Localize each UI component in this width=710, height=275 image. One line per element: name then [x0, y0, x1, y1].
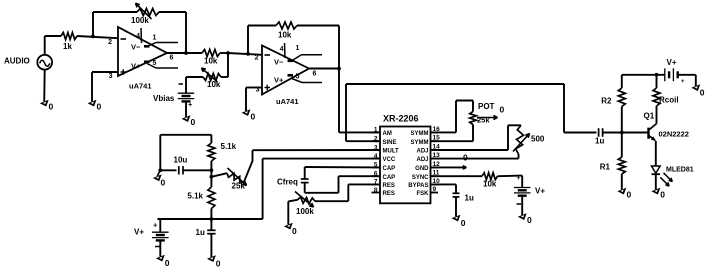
battery V+ middle: [514, 175, 545, 215]
svg-text:0: 0: [251, 112, 256, 122]
IC U3 XR-2206: [372, 114, 441, 204]
svg-text:GND: GND: [415, 166, 429, 172]
svg-text:25k: 25k: [232, 182, 246, 191]
svg-text:SYMM: SYMM: [411, 140, 429, 146]
svg-text:Cfreq: Cfreq: [277, 178, 298, 187]
ground battery bottom left: [156, 255, 170, 268]
svg-text:+: +: [188, 100, 193, 109]
svg-text:0: 0: [500, 105, 505, 115]
svg-text:VCC: VCC: [383, 157, 396, 163]
battery V+ bottom left: [134, 219, 169, 257]
wire to op-amp U2 pin 2: [228, 52, 262, 56]
svg-text:MLED81: MLED81: [666, 167, 694, 174]
ground R1: [617, 188, 631, 200]
svg-text:5.1k: 5.1k: [187, 192, 203, 201]
svg-text:+: +: [153, 221, 158, 230]
svg-text:10u: 10u: [174, 156, 188, 165]
svg-text:100k: 100k: [296, 207, 314, 216]
svg-text:V−: V−: [274, 58, 284, 67]
wire V+ rail to XR-2206 pin 4 VCC: [158, 159, 381, 221]
wire U2 output to XR-2206 pin 1 AM: [309, 67, 380, 133]
wire audio to 1k: [45, 36, 61, 55]
node A junction: [91, 35, 95, 39]
resistor 5.1k upper: [208, 135, 237, 172]
trimmer 10k to Vbias: [186, 53, 228, 89]
svg-text:SYMM: SYMM: [411, 131, 429, 137]
svg-text:0: 0: [97, 102, 102, 112]
svg-text:10k: 10k: [483, 180, 497, 189]
svg-text:Rcoil: Rcoil: [659, 96, 679, 105]
wire U2 pin3 to ground: [246, 88, 262, 112]
svg-text:MULT: MULT: [383, 149, 400, 155]
capacitor 1u coupling: [564, 128, 649, 145]
capacitor 1u bypass pin 10: [431, 184, 474, 216]
resistor 1k: [61, 33, 77, 52]
svg-text:V−: V−: [131, 43, 141, 52]
svg-text:ADJ: ADJ: [416, 157, 428, 163]
ground 1u bottom left: [207, 255, 221, 268]
resistor R1: [600, 133, 626, 190]
svg-text:BYPAS: BYPAS: [408, 183, 428, 189]
svg-text:V+: V+: [134, 228, 144, 237]
resistor Rcoil: [653, 75, 679, 124]
svg-text:5: 5: [296, 74, 300, 81]
svg-text:SINE: SINE: [383, 140, 397, 146]
svg-text:1: 1: [153, 35, 157, 42]
potentiometer POT 25k on SYMM pins: [431, 101, 498, 142]
capacitor 1u bottom left: [196, 219, 216, 257]
ground bypass capacitor: [452, 215, 466, 228]
trimmer 100k to XR-2206 pin 7 RES: [288, 184, 380, 224]
svg-text:+: +: [681, 79, 685, 85]
svg-text:6: 6: [313, 71, 317, 78]
svg-text:SYNC: SYNC: [412, 175, 429, 181]
ground 100k: [284, 223, 297, 236]
resistor R2: [601, 75, 625, 133]
svg-text:2: 2: [108, 39, 112, 46]
svg-text:10k: 10k: [207, 80, 221, 89]
svg-text:0: 0: [165, 258, 170, 268]
svg-text:V+: V+: [274, 76, 284, 85]
resistor 10k feedback U2: [248, 22, 339, 69]
svg-text:0: 0: [161, 178, 166, 188]
svg-text:10k: 10k: [278, 31, 292, 40]
transistor Q1 02N2222: [644, 112, 689, 166]
svg-text:4: 4: [280, 46, 284, 53]
svg-text:02N2222: 02N2222: [659, 130, 689, 139]
svg-text:V+: V+: [535, 187, 545, 196]
svg-text:0: 0: [49, 102, 54, 112]
svg-text:uA741: uA741: [129, 82, 152, 91]
ground arrow pin 12 GND: [431, 153, 469, 170]
ground below AUDIO source: [40, 70, 54, 112]
svg-text:ADJ: ADJ: [416, 149, 428, 155]
svg-text:0: 0: [527, 215, 532, 225]
svg-text:1u: 1u: [465, 194, 474, 203]
svg-text:0: 0: [461, 218, 466, 228]
svg-text:uA741: uA741: [276, 97, 299, 106]
svg-text:POT: POT: [478, 102, 495, 111]
wire U1 output: [167, 51, 202, 61]
LED MLED81: [652, 166, 694, 190]
svg-text:10k: 10k: [204, 57, 218, 66]
svg-text:1u: 1u: [196, 228, 205, 237]
svg-text:1: 1: [374, 127, 378, 134]
svg-text:1u: 1u: [595, 137, 604, 146]
svg-text:5.1k: 5.1k: [221, 142, 237, 151]
ground LED: [651, 188, 665, 200]
svg-text:0: 0: [463, 153, 468, 163]
ground U2 pin 3: [242, 109, 256, 121]
battery Vbias: [153, 77, 194, 117]
svg-text:2: 2: [374, 136, 378, 143]
svg-text:+: +: [517, 175, 521, 182]
svg-text:CAP: CAP: [383, 166, 396, 172]
svg-text:R2: R2: [601, 97, 612, 106]
ground U1 pin 3: [88, 100, 102, 112]
svg-text:100k: 100k: [131, 16, 149, 25]
ground battery middle: [518, 213, 532, 225]
svg-text:0: 0: [216, 259, 221, 269]
ground at 10u node: [153, 170, 166, 187]
AC source AUDIO input: [4, 55, 52, 70]
svg-text:Q1: Q1: [644, 112, 655, 121]
svg-text:5: 5: [153, 60, 157, 67]
svg-text:0: 0: [627, 190, 632, 200]
svg-text:8: 8: [374, 187, 378, 194]
svg-text:2: 2: [255, 55, 259, 62]
svg-text:V+: V+: [667, 58, 677, 67]
resistor 10k series: [202, 50, 230, 66]
op-amp U2 uA741: [255, 43, 322, 106]
capacitor 10u: [158, 135, 211, 175]
svg-text:0: 0: [191, 117, 196, 127]
svg-text:1: 1: [296, 45, 300, 52]
svg-text:6: 6: [170, 55, 174, 62]
ground Vbias: [182, 115, 196, 127]
svg-text:0: 0: [660, 190, 665, 200]
capacitor Cfreq between pins 5 and 6: [277, 167, 380, 193]
svg-text:0: 0: [292, 226, 297, 236]
svg-text:XR-2206: XR-2206: [383, 114, 419, 124]
trimmer 25k to XR-2206 pin 3 MULT: [210, 150, 381, 191]
svg-text:V+: V+: [131, 62, 141, 71]
svg-text:4: 4: [136, 33, 140, 40]
wire V+ rail top right: [622, 73, 665, 77]
svg-text:CAP: CAP: [383, 175, 396, 181]
svg-text:500: 500: [531, 135, 545, 144]
wire 1k to op-amp U1 pin 2: [77, 36, 118, 38]
ground battery top right: [691, 84, 704, 97]
wire XR-2206 pin 2 SINE to output stage: [346, 84, 564, 141]
svg-text:0: 0: [700, 88, 705, 98]
svg-text:Vbias: Vbias: [153, 94, 175, 103]
svg-text:1k: 1k: [63, 42, 72, 51]
svg-text:AM: AM: [383, 131, 392, 137]
svg-text:9: 9: [433, 186, 437, 193]
svg-text:3: 3: [109, 73, 113, 80]
svg-text:RES: RES: [383, 183, 395, 189]
ground POT wiper: [500, 105, 505, 115]
resistor 10k to V+ battery: [431, 173, 523, 189]
op-amp U1 uA741: [108, 27, 178, 91]
svg-text:FSK: FSK: [417, 191, 430, 197]
resistor 5.1k lower: [187, 170, 214, 219]
svg-text:RES: RES: [383, 191, 395, 197]
wire U1 pin3 to ground: [92, 72, 118, 102]
potentiometer 100k feedback U1: [93, 3, 186, 53]
battery V+ top right: [665, 58, 696, 86]
svg-text:AUDIO: AUDIO: [4, 57, 30, 66]
potentiometer 500 on ADJ pins: [431, 125, 545, 158]
svg-text:R1: R1: [600, 163, 611, 172]
